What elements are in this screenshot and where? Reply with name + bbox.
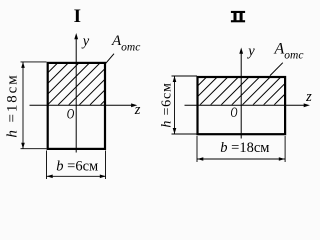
svg-text:b =6см: b =6см (56, 159, 98, 175)
svg-text:z: z (134, 102, 141, 118)
svg-text:O: O (67, 107, 75, 123)
svg-text:y: y (81, 33, 90, 49)
svg-text:Aотс: Aотс (274, 41, 304, 62)
svg-text:b =18см: b =18см (220, 140, 269, 156)
svg-text:O: O (231, 105, 238, 121)
svg-text:I: I (74, 6, 81, 27)
svg-text:Aотс: Aотс (111, 33, 140, 53)
svg-text:z: z (305, 89, 312, 105)
svg-text:y: y (246, 44, 255, 60)
svg-text:h =18см: h =18см (5, 73, 21, 137)
svg-text:h =6см: h =6см (160, 82, 175, 127)
